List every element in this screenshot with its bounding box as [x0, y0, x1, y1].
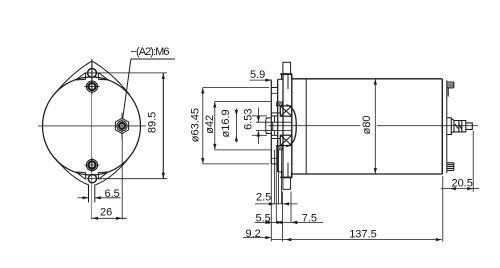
groove vertical — [274, 116, 276, 122]
bottom flange V outline right — [95, 157, 129, 185]
svg-text:9.2: 9.2 — [246, 228, 261, 240]
main body rectangle — [292, 74, 443, 177]
top stud — [283, 62, 291, 74]
terminal top right — [447, 82, 454, 96]
plate tick lines — [271, 92, 277, 94]
svg-text:137.5: 137.5 — [349, 228, 377, 240]
dim 26 — [121, 134, 123, 220]
vertical centerline — [91, 59, 93, 219]
terminal main right — [447, 118, 473, 135]
svg-text:5.5: 5.5 — [256, 212, 271, 224]
keyway slot — [256, 121, 292, 123]
right hex nut — [115, 118, 128, 133]
svg-text:−(A2):M6: −(A2):M6 — [131, 46, 170, 58]
bottom right slot — [98, 172, 107, 179]
bearing boss arc — [286, 105, 296, 147]
dim phi16.9 — [235, 109, 237, 143]
svg-text:2.5: 2.5 — [256, 192, 271, 204]
hatch top — [276, 102, 282, 106]
top flange ear outline left — [54, 62, 90, 94]
upper bearing box — [280, 106, 292, 116]
top right ear slot — [98, 73, 107, 80]
dim phi80 — [374, 79, 376, 174]
svg-text:89.5: 89.5 — [147, 112, 159, 133]
svg-text:ø42: ø42 — [204, 115, 216, 134]
svg-text:20.5: 20.5 — [452, 177, 473, 189]
svg-text:5.9: 5.9 — [250, 69, 265, 81]
dim 20.5 — [472, 131, 474, 192]
shaft boss edges — [271, 112, 280, 114]
svg-text:ø16.9: ø16.9 — [220, 109, 232, 137]
hatch bottom — [276, 146, 282, 150]
label leader line — [131, 58, 175, 60]
svg-text:6.5: 6.5 — [105, 188, 120, 200]
dim phi63.45 — [203, 87, 269, 89]
dim phi42 — [215, 101, 271, 103]
body right edge — [441, 79, 443, 174]
bottom flange V outline left — [54, 157, 88, 185]
dim 9.2 — [243, 237, 271, 239]
svg-text:ø80: ø80 — [361, 115, 373, 134]
bottom tab — [88, 185, 90, 203]
extension lines lower — [270, 150, 272, 242]
end cap line — [446, 80, 448, 173]
flange boss face — [270, 80, 272, 165]
dim 2.5 — [255, 203, 298, 205]
bottom tip hole — [88, 175, 96, 183]
lower nut — [86, 159, 97, 170]
dim 6.5 — [78, 197, 89, 199]
svg-text:7.5: 7.5 — [302, 212, 317, 224]
horizontal centerline — [268, 125, 360, 127]
bottom stud — [283, 178, 291, 190]
upper nut — [86, 81, 97, 92]
dim 137.5 — [271, 239, 442, 241]
flange plate front — [277, 79, 279, 172]
lower bearing box — [280, 135, 292, 145]
horizontal centerline — [38, 125, 146, 127]
shaft bore edges — [271, 115, 277, 117]
svg-text:6.53: 6.53 — [242, 108, 254, 129]
motor body circle — [43, 77, 141, 175]
dim 6.53 — [257, 108, 259, 123]
terminal bottom right — [447, 163, 454, 171]
flange plate rear — [282, 74, 284, 178]
shaft tip section — [266, 117, 272, 119]
svg-text:26: 26 — [100, 206, 112, 218]
phi16.9 short ext lines — [252, 115, 267, 117]
body joint line — [305, 79, 307, 174]
dim 89.5 — [97, 72, 167, 74]
dim 5.5 / 7.5 — [255, 221, 323, 223]
top left ear slot — [76, 73, 85, 80]
stud shank lines — [287, 74, 289, 89]
bottom left slot — [76, 172, 85, 179]
dim 5.9 — [249, 79, 271, 81]
svg-text:ø63.45: ø63.45 — [190, 108, 202, 142]
ear hole top — [88, 69, 97, 78]
top flange ear outline right — [94, 62, 130, 95]
